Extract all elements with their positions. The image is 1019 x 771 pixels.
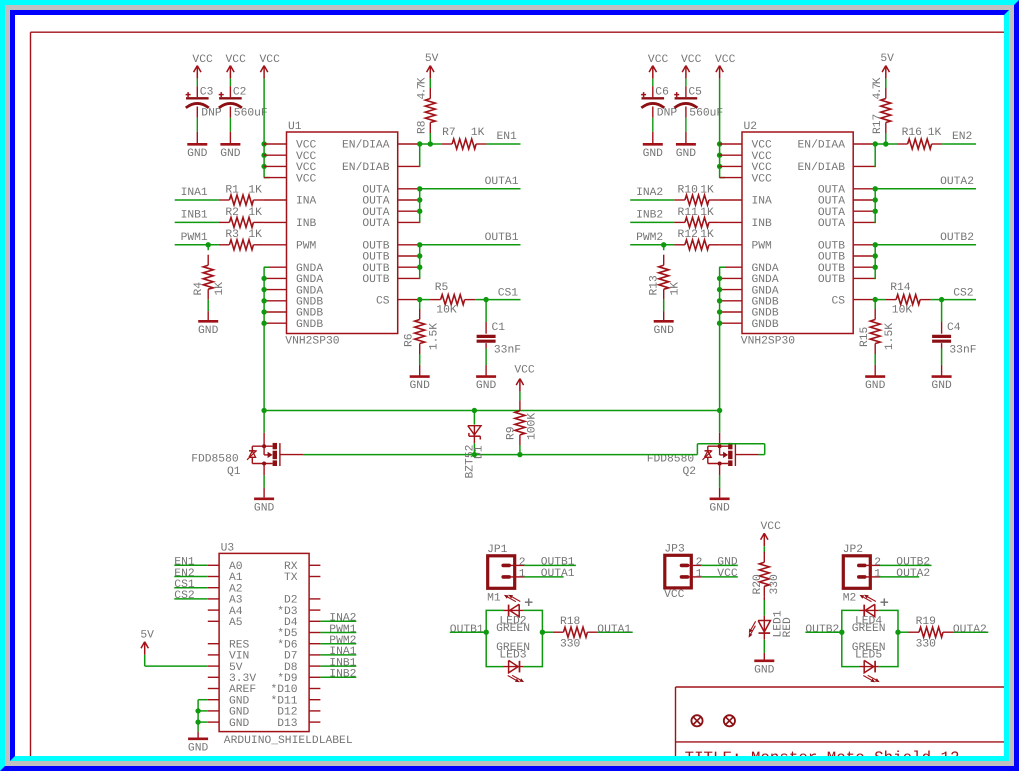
net label OUTB1 (JP1) <box>541 557 575 569</box>
svg-text:D2: D2 <box>284 595 298 607</box>
wire net OUTB1 (bridge) <box>450 631 486 633</box>
svg-text:GND: GND <box>709 502 730 514</box>
svg-text:1: 1 <box>696 568 703 580</box>
svg-text:C3: C3 <box>200 86 214 98</box>
wire OUTA bus <box>874 189 877 223</box>
svg-text:R3: R3 <box>225 229 239 241</box>
svg-text:OUTA2: OUTA2 <box>896 568 930 580</box>
net label EN2 <box>952 131 972 143</box>
wire CS to C <box>931 299 942 301</box>
svg-text:VCC: VCC <box>681 54 702 66</box>
wire net CS1 <box>486 299 520 301</box>
junction OUTA2 row <box>873 197 878 202</box>
svg-text:R12: R12 <box>678 229 698 241</box>
junction bridge right <box>540 630 545 635</box>
junction VCC pin row2 <box>717 153 722 158</box>
svg-text:LED3: LED3 <box>499 650 526 662</box>
ground (R13) <box>654 321 675 337</box>
svg-text:R18: R18 <box>560 616 581 628</box>
net label EN2 (U3) <box>174 568 194 580</box>
net label OUTA1 (JP1) <box>541 568 575 580</box>
wire net INB2 (U3) <box>320 676 356 678</box>
svg-text:GND: GND <box>229 718 250 730</box>
junction OUTA3 row <box>873 209 878 214</box>
svg-text:GNDB: GNDB <box>296 297 323 309</box>
wire net PWM1 (U3) <box>320 632 356 634</box>
JP1 pin 1 <box>503 568 526 580</box>
power flag VCC (C3) <box>192 54 213 79</box>
net label OUTB1 <box>485 232 519 244</box>
transistor Q2 FDD8580 <box>647 411 759 498</box>
svg-text:FDD8580: FDD8580 <box>191 454 239 466</box>
svg-text:R5: R5 <box>435 282 449 294</box>
svg-text:VCC: VCC <box>752 151 773 163</box>
svg-text:OUTB2: OUTB2 <box>940 232 974 244</box>
net label VCC (JP3) <box>717 568 738 580</box>
svg-text:1: 1 <box>519 568 526 580</box>
svg-text:D8: D8 <box>284 662 298 674</box>
svg-text:C4: C4 <box>947 322 961 334</box>
wire CS to C <box>475 299 486 301</box>
wire net PWM1 <box>175 244 219 246</box>
wire net PWM2 <box>630 244 674 246</box>
svg-text:33nF: 33nF <box>949 345 976 357</box>
svg-text:GND: GND <box>865 380 886 392</box>
svg-text:D12: D12 <box>277 707 297 719</box>
svg-text:1K: 1K <box>700 229 714 241</box>
svg-text:560uF: 560uF <box>234 107 268 119</box>
junction GND row3 <box>261 287 266 292</box>
LED LED4 GREEN <box>852 595 888 636</box>
resistor R9 100K <box>506 392 539 455</box>
svg-text:INB1: INB1 <box>181 209 208 221</box>
wire net INB2 <box>630 221 674 223</box>
svg-text:VCC: VCC <box>648 54 669 66</box>
svg-text:R11: R11 <box>678 207 699 219</box>
svg-text:GNDB: GNDB <box>752 319 779 331</box>
U2 left pin stubs <box>719 144 742 323</box>
wire 5V to U3 <box>145 655 208 666</box>
svg-text:*D10: *D10 <box>270 683 297 696</box>
svg-text:4.7K: 4.7K <box>417 77 429 99</box>
wire net OUTB2 (bridge) <box>805 631 841 633</box>
svg-text:VNH2SP30: VNH2SP30 <box>741 335 795 347</box>
resistor R8 4.7K <box>417 77 436 144</box>
svg-text:GND: GND <box>254 502 275 514</box>
svg-text:R13: R13 <box>649 275 661 296</box>
junction gate rail D1 <box>472 452 477 457</box>
svg-text:OUTB: OUTB <box>818 241 845 253</box>
resistor R3 1K <box>219 229 264 250</box>
ground (R15) <box>865 377 886 393</box>
svg-text:Q2: Q2 <box>683 466 697 478</box>
junction U3 GND2 <box>195 708 200 713</box>
junction PWM2/R pulldown <box>661 242 666 247</box>
net label INA1 <box>181 187 208 199</box>
resistor R18 330 <box>542 616 598 651</box>
svg-text:RX: RX <box>284 561 298 573</box>
capacitor C4 33nF <box>932 300 976 377</box>
ground (Q1) <box>254 499 275 515</box>
junction EN/DIAA stub <box>417 141 422 146</box>
svg-text:C5: C5 <box>688 86 702 98</box>
junction OUTB2 row <box>417 253 422 258</box>
wire net OUTB2 (JP2) <box>880 564 932 566</box>
svg-text:OUTB: OUTB <box>818 252 845 264</box>
wire net OUTA2 (bridge) <box>954 631 989 633</box>
junction GND row5 <box>261 309 266 314</box>
JP3 pin 2 <box>682 557 703 569</box>
junction VCC pin row3 <box>261 164 266 169</box>
net label OUTA2 (JP2) <box>896 568 930 580</box>
power flag 5V (R17) <box>880 53 894 79</box>
resistor R20 330 <box>752 546 781 616</box>
wire net VCC (JP3) <box>701 576 738 578</box>
U3 right pin stubs <box>309 565 320 722</box>
junction CS stub <box>417 297 422 302</box>
wire EN/DIAB to EN/DIAA <box>418 144 421 166</box>
svg-text:U3: U3 <box>221 542 235 554</box>
svg-text:330: 330 <box>916 639 937 651</box>
svg-text:2: 2 <box>519 557 526 569</box>
ground (C1) <box>476 377 497 393</box>
svg-text:PWM2: PWM2 <box>329 635 356 647</box>
svg-text:INA2: INA2 <box>636 187 663 199</box>
wire net OUTA2 <box>875 188 976 190</box>
svg-text:INB: INB <box>296 218 317 230</box>
svg-text:OUTB2: OUTB2 <box>896 557 930 569</box>
wire net CS2 <box>942 299 976 301</box>
svg-text:VNH2SP30: VNH2SP30 <box>285 335 339 347</box>
svg-text:OUTA: OUTA <box>362 218 389 230</box>
wire net EN2 <box>942 143 976 145</box>
svg-text:EN/DIAA: EN/DIAA <box>342 139 390 152</box>
wire net PWM2 (U3) <box>320 643 356 645</box>
svg-text:GND: GND <box>229 695 250 707</box>
svg-text:4.7K: 4.7K <box>872 77 884 99</box>
svg-text:GNDB: GNDB <box>752 297 779 309</box>
svg-text:OUTA: OUTA <box>362 207 389 219</box>
svg-text:GND: GND <box>643 148 664 160</box>
svg-text:RES: RES <box>229 639 250 651</box>
svg-text:OUTB1: OUTB1 <box>485 232 519 244</box>
net label INB2 <box>636 209 663 221</box>
svg-text:GND: GND <box>717 557 738 569</box>
svg-text:R9: R9 <box>506 426 518 440</box>
svg-text:OUTA: OUTA <box>362 185 389 197</box>
ground (LED1) <box>754 661 775 677</box>
svg-text:A3: A3 <box>229 595 243 607</box>
wire net GND (JP3) <box>701 564 738 566</box>
svg-text:OUTA: OUTA <box>818 185 845 197</box>
junction OUTB3 row <box>417 265 422 270</box>
wire LED bridge <box>486 610 542 666</box>
svg-text:1K: 1K <box>670 282 682 296</box>
svg-text:VCC: VCC <box>514 364 535 376</box>
junction GND row4 <box>261 298 266 303</box>
net label CS1 <box>498 287 519 299</box>
junction GND row4 <box>717 298 722 303</box>
svg-text:RED: RED <box>782 617 794 638</box>
IC U3 ARDUINO_SHIELDLABEL <box>219 542 353 747</box>
junction GND row6 <box>261 321 266 326</box>
svg-text:A2: A2 <box>229 583 243 595</box>
svg-text:*D5: *D5 <box>277 627 298 640</box>
resistor R19 330 <box>898 616 954 651</box>
wire OUTB bus <box>418 245 421 279</box>
svg-text:GND: GND <box>188 742 209 754</box>
junction gate rail R9 <box>517 452 522 457</box>
net label OUTB2 (bridge) <box>805 624 839 636</box>
ground (C2) <box>220 144 241 160</box>
net label OUTA2 <box>940 176 974 188</box>
wire EN/DIAB to EN/DIAA <box>874 144 877 166</box>
connector JP2 <box>843 544 871 605</box>
svg-text:R4: R4 <box>193 282 205 296</box>
wire GND bus <box>264 267 270 410</box>
svg-text:M2: M2 <box>843 593 857 605</box>
title text <box>685 749 960 767</box>
junction EN/DIAA stub <box>873 141 878 146</box>
ground (R4) <box>198 321 219 337</box>
svg-text:1K: 1K <box>214 282 226 296</box>
junction OUTA3 row <box>417 209 422 214</box>
svg-text:CS1: CS1 <box>174 579 195 591</box>
net label INA1 (U3) <box>329 646 356 658</box>
junction OUTA1 row <box>417 186 422 191</box>
U1 left pin stubs <box>264 144 287 323</box>
net label OUTA1 (bridge) <box>597 624 631 636</box>
svg-text:GND: GND <box>676 148 697 160</box>
net label CS1 (U3) <box>174 579 195 591</box>
junction GND row2 <box>261 276 266 281</box>
junction CS stub <box>873 297 878 302</box>
svg-text:1K: 1K <box>248 229 262 241</box>
junction PWM1/R pulldown <box>206 242 211 247</box>
title block drill mark 2 <box>724 715 735 726</box>
svg-text:PWM1: PWM1 <box>181 232 208 244</box>
junction rail left <box>261 408 266 413</box>
wire net INA1 (U3) <box>320 654 356 656</box>
svg-text:INB2: INB2 <box>329 669 356 681</box>
capacitor C1 33nF <box>477 300 521 377</box>
svg-text:INA1: INA1 <box>181 187 208 199</box>
svg-text:M1: M1 <box>487 593 501 605</box>
svg-text:GNDB: GNDB <box>296 319 323 331</box>
svg-text:1.5K: 1.5K <box>884 323 896 350</box>
svg-text:JP1: JP1 <box>487 544 508 556</box>
junction OUTB3 row <box>873 265 878 270</box>
connector JP1 <box>487 544 515 605</box>
ground (C4) <box>931 377 952 393</box>
resistor R6 1.5K <box>403 300 440 377</box>
wire net EN2 (U3) <box>174 576 208 578</box>
svg-text:OUTA1: OUTA1 <box>485 176 519 188</box>
junction VCC pin row1 <box>717 141 722 146</box>
svg-text:VCC: VCC <box>260 54 281 66</box>
svg-text:VCC: VCC <box>226 54 247 66</box>
svg-text:1K: 1K <box>248 184 262 196</box>
svg-text:*D9: *D9 <box>277 672 297 685</box>
svg-text:VCC: VCC <box>192 54 213 66</box>
junction R8 <box>428 141 433 146</box>
wire OUTB bus <box>874 245 877 279</box>
wire net INB1 (U3) <box>320 665 356 667</box>
net label GND (JP3) <box>717 557 738 569</box>
svg-text:CS2: CS2 <box>953 287 973 299</box>
svg-text:INB2: INB2 <box>636 209 663 221</box>
svg-text:OUTB: OUTB <box>818 274 845 286</box>
junction VCC pin row2 <box>261 153 266 158</box>
net label OUTB2 <box>940 232 974 244</box>
svg-text:VCC: VCC <box>752 140 773 152</box>
svg-text:D4: D4 <box>284 617 298 629</box>
svg-text:1K: 1K <box>700 184 714 196</box>
resistor R7 1K <box>430 127 486 149</box>
svg-text:GREEN: GREEN <box>496 623 530 635</box>
svg-text:R17: R17 <box>872 114 884 134</box>
svg-text:GND: GND <box>220 148 241 160</box>
resistor R10 1K <box>674 184 719 205</box>
svg-text:*D3: *D3 <box>277 605 298 618</box>
wire net INB1 <box>175 221 219 223</box>
ground (U3) <box>188 739 209 755</box>
svg-text:2: 2 <box>874 557 881 569</box>
resistor R14 10K <box>875 282 930 317</box>
wire net EN1 <box>487 143 521 145</box>
svg-text:C2: C2 <box>233 86 247 98</box>
svg-text:VCC: VCC <box>752 162 773 174</box>
net label CS2 (U3) <box>174 590 194 602</box>
svg-text:OUTA2: OUTA2 <box>940 176 974 188</box>
svg-text:OUTB1: OUTB1 <box>450 624 484 636</box>
svg-text:3.3V: 3.3V <box>229 673 256 685</box>
svg-text:CS: CS <box>376 295 390 307</box>
svg-text:VCC: VCC <box>752 173 773 185</box>
svg-text:100K: 100K <box>527 413 539 440</box>
svg-text:GND: GND <box>410 380 431 392</box>
svg-text:PWM2: PWM2 <box>636 232 663 244</box>
svg-text:R20: R20 <box>752 574 764 595</box>
junction OUTA1 row <box>873 186 878 191</box>
svg-text:R6: R6 <box>403 333 415 347</box>
junction R17 <box>883 141 888 146</box>
transistor Q1 FDD8580 <box>191 411 303 498</box>
svg-text:JP3: JP3 <box>664 544 685 556</box>
junction VCC pin row1 <box>261 141 266 146</box>
svg-text:OUTB: OUTB <box>362 252 389 264</box>
svg-text:5V: 5V <box>140 629 154 641</box>
svg-text:DNP: DNP <box>201 107 222 119</box>
net label INB2 (U3) <box>329 669 356 681</box>
svg-text:OUTA2: OUTA2 <box>953 624 987 636</box>
JP1 pin 2 <box>503 557 525 569</box>
ground (C5) <box>676 144 697 160</box>
svg-text:C6: C6 <box>655 86 669 98</box>
svg-text:INA2: INA2 <box>329 613 356 625</box>
capacitor C3 (DNP) <box>186 79 222 144</box>
junction bridge left <box>484 630 489 635</box>
junction GND row5 <box>717 309 722 314</box>
svg-text:5V: 5V <box>880 53 894 65</box>
svg-text:Q1: Q1 <box>227 466 241 478</box>
svg-text:GNDA: GNDA <box>752 285 779 297</box>
svg-text:A4: A4 <box>229 606 243 618</box>
wire U3 GND bus <box>198 700 208 739</box>
junction OUTA2 row <box>417 197 422 202</box>
svg-text:R14: R14 <box>890 282 911 294</box>
junction GND row2 <box>717 276 722 281</box>
resistor R2 1K <box>219 207 264 228</box>
net label INB1 <box>181 209 208 221</box>
svg-text:A0: A0 <box>229 561 243 573</box>
svg-text:R2: R2 <box>225 207 239 219</box>
power flag VCC (C6) <box>648 54 669 79</box>
wire net INA2 (U3) <box>320 620 356 622</box>
wire net CS1 (U3) <box>174 587 208 589</box>
wire net INA2 <box>630 199 674 201</box>
diode D1 BZT52 <box>464 411 485 479</box>
svg-text:R8: R8 <box>417 120 429 134</box>
U2 right pin stubs <box>853 144 876 300</box>
svg-text:OUTA: OUTA <box>818 207 845 219</box>
junction bridge right <box>895 630 900 635</box>
junction OUTB1 row <box>417 242 422 247</box>
svg-text:VCC: VCC <box>761 521 782 533</box>
svg-text:GNDA: GNDA <box>296 274 323 286</box>
resistor R1 1K <box>219 184 264 205</box>
svg-text:1K: 1K <box>471 127 485 139</box>
net label CS2 <box>953 287 973 299</box>
svg-text:AREF: AREF <box>229 684 256 696</box>
svg-text:GND: GND <box>198 325 219 337</box>
junction GND row3 <box>717 287 722 292</box>
svg-text:EN/DIAB: EN/DIAB <box>342 161 390 174</box>
svg-text:VCC: VCC <box>296 162 317 174</box>
power flag VCC (U1 supply) <box>260 54 281 79</box>
resistor R12 1K <box>674 229 719 250</box>
wire net OUTA1 <box>420 188 521 190</box>
net label PWM1 (U3) <box>329 624 356 636</box>
wire net OUTB1 <box>420 244 521 246</box>
svg-text:GNDB: GNDB <box>752 308 779 320</box>
svg-text:GND: GND <box>931 380 952 392</box>
svg-text:CS1: CS1 <box>498 287 519 299</box>
svg-text:R10: R10 <box>678 184 699 196</box>
svg-text:OUTB: OUTB <box>362 274 389 286</box>
svg-text:R1: R1 <box>225 184 239 196</box>
net label PWM2 <box>636 232 663 244</box>
resistor R11 1K <box>674 207 719 228</box>
net label PWM1 <box>181 232 208 244</box>
wire LED bridge <box>842 610 898 666</box>
resistor R5 10K <box>420 282 475 317</box>
wire GND bus <box>720 267 726 410</box>
svg-text:R16: R16 <box>902 127 923 139</box>
resistor R16 1K <box>886 127 942 149</box>
svg-text:TITLE: Monster_Moto_Shield-12: TITLE: Monster_Moto_Shield-12 <box>685 749 960 767</box>
svg-text:VCC: VCC <box>296 173 317 185</box>
svg-text:D7: D7 <box>284 651 298 663</box>
svg-text:OUTA: OUTA <box>818 196 845 208</box>
svg-text:VCC: VCC <box>664 589 685 601</box>
U1 right pin stubs <box>398 144 421 300</box>
svg-text:1.5K: 1.5K <box>428 323 440 350</box>
svg-text:OUTA1: OUTA1 <box>597 624 631 636</box>
U3 left pin stubs <box>208 565 219 722</box>
svg-text:OUTB: OUTB <box>362 241 389 253</box>
wire net CS2 (U3) <box>174 598 208 600</box>
